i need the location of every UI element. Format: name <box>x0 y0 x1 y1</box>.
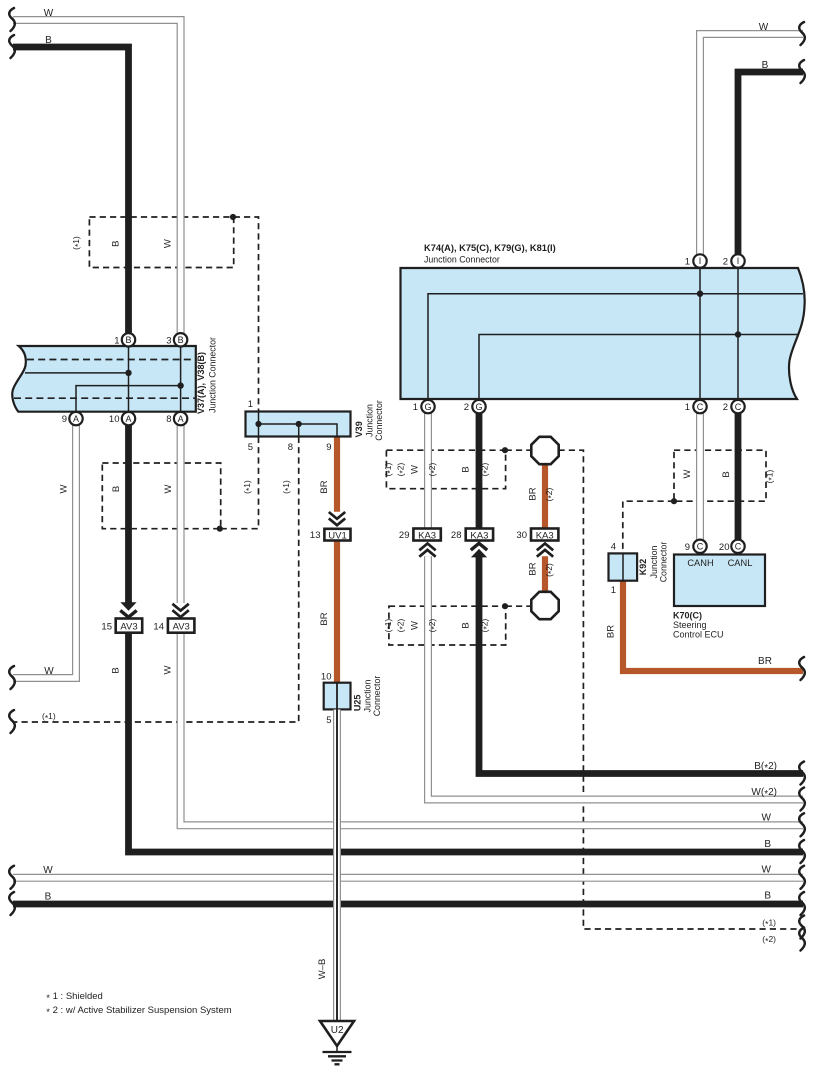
svg-text:Connector: Connector <box>374 400 384 441</box>
pin 1(I) K74 <box>693 254 706 267</box>
wire W K74 pin 1(C) to K70 pin 9 CANH <box>696 407 704 547</box>
svg-text:8: 8 <box>288 442 293 453</box>
svg-text:8: 8 <box>166 414 171 425</box>
svg-text:CANL: CANL <box>728 558 753 568</box>
pin 2(G) K74 <box>472 400 485 413</box>
svg-text:B: B <box>45 892 52 903</box>
svg-text:W: W <box>682 469 693 478</box>
svg-text:W(*2): W(*2) <box>751 787 777 800</box>
shield box (*1)(*2) around W/B wires above bottom turns <box>389 606 506 645</box>
shield box (*1)(*2) around W/B wires below K74 <box>386 450 505 489</box>
shield box (*1) around CANH/CANL wires <box>674 450 766 501</box>
break squiggle right B top <box>799 60 805 83</box>
svg-text:1: 1 <box>248 399 253 410</box>
svg-text:Junction: Junction <box>649 546 659 579</box>
node shield drain junction left-middle box <box>217 526 223 532</box>
chevrons 29 KA3 <box>419 544 435 557</box>
svg-text:30: 30 <box>516 530 527 541</box>
svg-text:Connector: Connector <box>372 676 382 717</box>
svg-text:W: W <box>759 22 769 33</box>
junction connector K74 K75 K79 K81 body <box>401 268 805 399</box>
svg-text:AV3: AV3 <box>173 621 190 632</box>
wire shield drain octagon 1 to right edge (*1)(*2) <box>559 450 804 929</box>
svg-text:BR: BR <box>528 487 539 500</box>
internal joint V37 pin1-pin10 <box>25 346 181 412</box>
svg-text:Steering: Steering <box>673 620 707 630</box>
pin 10(A) V37 <box>122 412 135 425</box>
pin 1(B) V37 <box>122 333 135 346</box>
svg-text:Junction: Junction <box>364 404 374 437</box>
svg-text:C: C <box>697 402 704 412</box>
wire BR K92 pin 1 to right edge <box>623 581 803 671</box>
svg-text:C: C <box>697 542 704 552</box>
svg-text:BR: BR <box>319 612 330 625</box>
pin 1(C) K74 <box>693 400 706 413</box>
wire BR V39 pin 9 to 13 UV1 to U25 pin 10 <box>334 437 340 685</box>
svg-text:Connector: Connector <box>658 542 668 583</box>
break squiggle left (*1) dash <box>9 710 15 733</box>
connector 13 UV1 box <box>324 529 350 541</box>
svg-text:BR: BR <box>319 480 330 493</box>
LAYER: connector boxes <box>12 268 804 1020</box>
break squiggle right W mid <box>799 813 805 836</box>
wire B V37 pin 10 to 15 AV3 and bottom B row <box>129 419 804 852</box>
internal joint K74 <box>428 268 803 399</box>
svg-text:B: B <box>178 335 184 345</box>
break squiggle right B bottom <box>799 892 805 915</box>
svg-text:* 2 : w/ Active Stabilizer Sus: * 2 : w/ Active Stabilizer Suspension Sy… <box>46 1005 231 1018</box>
ground earth hatch <box>336 1046 338 1051</box>
svg-text:B: B <box>461 466 472 472</box>
junction connector V37(A) V38(B) body <box>12 346 196 412</box>
svg-text:B: B <box>461 622 472 628</box>
break squiggle left W middle <box>9 666 15 689</box>
svg-text:C: C <box>735 542 742 552</box>
shield octagon 1 <box>531 437 558 464</box>
svg-text:9: 9 <box>326 442 331 453</box>
wire W V37 pin 8 to 14 AV3 and bottom W row <box>181 419 803 826</box>
svg-text:13: 13 <box>310 530 321 541</box>
break squiggle left W bottom <box>9 866 15 889</box>
svg-text:2: 2 <box>723 257 728 268</box>
wire W-B U25 pin 5 to ground U2 <box>333 710 341 1021</box>
break squiggle right W(*2) <box>799 788 805 811</box>
wire B top-left to V37 pin 1 <box>13 47 129 340</box>
svg-text:V37(A), V38(B): V37(A), V38(B) <box>196 352 206 414</box>
pin 2(I) K74 <box>731 254 744 267</box>
pin 3(B) V37 <box>174 333 187 346</box>
internal joint K92 divider <box>622 553 624 580</box>
connector 30 KA3 box <box>531 529 558 541</box>
wire B top-right to K74 pin 2(I) <box>738 72 803 261</box>
svg-text:10: 10 <box>109 414 120 425</box>
pin 9(A) V37 <box>69 412 82 425</box>
svg-text:B: B <box>764 839 771 850</box>
svg-text:CANH: CANH <box>687 558 713 568</box>
svg-text:1: 1 <box>685 402 690 413</box>
svg-text:B: B <box>111 486 122 492</box>
svg-text:B: B <box>125 335 131 345</box>
svg-text:W: W <box>762 813 772 824</box>
svg-text:B: B <box>764 891 771 902</box>
chevrons 14 AV3 <box>172 604 188 617</box>
svg-text:I: I <box>737 256 740 266</box>
svg-text:UV1: UV1 <box>328 530 346 541</box>
svg-text:28: 28 <box>451 530 462 541</box>
svg-text:G: G <box>475 402 482 412</box>
svg-text:1: 1 <box>413 402 418 413</box>
svg-text:5: 5 <box>248 442 253 453</box>
break squiggle right W bottom <box>799 866 805 889</box>
connector 29 KA3 box <box>413 529 440 541</box>
break squiggle left W top <box>9 8 15 31</box>
svg-text:2: 2 <box>723 402 728 413</box>
node shield drain junction upper-right box <box>502 447 508 453</box>
svg-text:1: 1 <box>611 585 616 596</box>
break squiggle right (*1) dash <box>799 916 805 939</box>
wire W top-right to K74 pin 1(I) <box>700 34 803 261</box>
LAYER: horizontal and vertical wires <box>13 20 803 904</box>
svg-text:U25: U25 <box>352 695 362 712</box>
svg-text:A: A <box>178 414 184 424</box>
svg-text:KA3: KA3 <box>536 530 554 541</box>
svg-text:K74(A), K75(C), K79(G), K81(I): K74(A), K75(C), K79(G), K81(I) <box>424 243 556 253</box>
svg-text:2: 2 <box>464 402 469 413</box>
pin 8(A) V37 <box>174 412 187 425</box>
wire W top-left to V37 pin 3 <box>13 20 181 340</box>
junction connector V39 body <box>246 412 351 437</box>
connector 15 AV3 box <box>116 619 143 633</box>
svg-text:B: B <box>45 35 52 46</box>
internal joint V39 <box>259 412 338 437</box>
svg-text:BR: BR <box>606 625 617 638</box>
svg-text:4: 4 <box>611 542 616 553</box>
break squiggle right (*2) dash <box>799 928 805 951</box>
svg-text:B(*2): B(*2) <box>754 761 777 774</box>
svg-text:W: W <box>59 484 70 493</box>
wire W full-width bottom row <box>13 874 803 882</box>
chevrons 13 UV1 <box>329 512 345 525</box>
wire shield drain to V39 pin 1 <box>234 217 259 412</box>
break squiggle right BR <box>799 657 805 680</box>
node shield drain junction top-left box <box>230 214 236 220</box>
svg-text:W: W <box>163 484 174 493</box>
svg-text:20: 20 <box>719 542 730 553</box>
shield box (*1) left-middle around B/W wires <box>102 463 220 529</box>
junction connector U25 body <box>324 683 351 710</box>
wire shield drain to octagon 2 <box>506 605 532 607</box>
break squiggle right B(*2) <box>799 762 805 785</box>
ground U2 triangle <box>320 1021 354 1046</box>
junction connector K92 body <box>609 553 638 580</box>
svg-text:3: 3 <box>166 335 171 346</box>
break squiggle left B bottom <box>9 892 15 915</box>
svg-text:14: 14 <box>153 621 164 632</box>
chevrons 28 KA3 <box>471 549 487 558</box>
svg-text:V39: V39 <box>354 421 364 437</box>
svg-text:AV3: AV3 <box>120 621 137 632</box>
pin 1(G) K74 <box>421 400 434 413</box>
node shield drain junction CAN box <box>671 498 677 504</box>
svg-text:K70(C): K70(C) <box>673 611 702 621</box>
break squiggle right W top <box>799 22 805 45</box>
connector 14 AV3 box <box>168 619 195 633</box>
svg-text:5: 5 <box>326 715 331 726</box>
svg-text:KA3: KA3 <box>418 530 436 541</box>
wire shield drain to octagon 1 <box>506 449 532 451</box>
svg-text:W: W <box>163 239 174 248</box>
svg-text:G: G <box>424 402 431 412</box>
svg-text:B: B <box>762 60 769 71</box>
svg-text:KA3: KA3 <box>470 530 488 541</box>
svg-text:BR: BR <box>758 656 772 667</box>
svg-text:W: W <box>163 665 174 674</box>
svg-text:B: B <box>111 667 122 673</box>
svg-text:29: 29 <box>399 530 410 541</box>
node V39 internal junctions <box>255 421 261 427</box>
svg-text:Control ECU: Control ECU <box>673 630 724 640</box>
svg-text:* 1 : Shielded: * 1 : Shielded <box>46 991 103 1004</box>
svg-text:W: W <box>43 865 53 876</box>
svg-text:10: 10 <box>321 671 332 682</box>
wire BR octagon 1 to 30 KA3 to octagon 2 <box>542 464 548 593</box>
bus bar dashed lines inside V37 <box>14 360 196 399</box>
svg-text:B: B <box>721 471 732 477</box>
svg-text:W: W <box>44 8 54 19</box>
svg-text:W: W <box>410 465 421 474</box>
svg-text:15: 15 <box>101 621 112 632</box>
connector 28 KA3 box <box>466 529 493 541</box>
wire shield drain V39 pin 5 to left-middle box <box>221 437 259 529</box>
svg-text:C: C <box>735 402 742 412</box>
wire B full-width bottom row <box>13 901 803 908</box>
svg-text:W: W <box>762 865 772 876</box>
svg-text:1: 1 <box>685 257 690 268</box>
node K74 internal junctions <box>697 291 703 297</box>
break squiggle right B mid <box>799 840 805 863</box>
node shield drain junction lower-right box <box>502 603 508 609</box>
svg-text:B: B <box>111 241 122 247</box>
steering control ECU K70(C) body <box>674 555 765 607</box>
shield box (*1) top-left around B/W wires <box>89 217 233 268</box>
node V37 internal junctions <box>125 370 131 376</box>
chevrons 15 AV3 <box>120 602 136 611</box>
break squiggle left B top <box>9 35 15 58</box>
wire shield drain V39 pin 8 to left edge (*1) <box>13 437 299 722</box>
shield octagon 2 <box>531 592 558 619</box>
svg-text:W: W <box>410 621 421 630</box>
svg-text:Junction Connector: Junction Connector <box>424 255 500 265</box>
wire W K74 pin 1(G) to 29 KA3 and W(*2) row <box>428 407 803 800</box>
svg-text:Junction Connector: Junction Connector <box>207 337 217 413</box>
svg-text:BR: BR <box>528 562 539 575</box>
chevrons 30 KA3 <box>537 544 553 557</box>
pin 2(C) K74 <box>731 400 744 413</box>
wire shield drain to K92 pin 4 <box>623 501 674 553</box>
wire B K74 pin 2(G) to 28 KA3 and B(*2) row <box>479 407 803 774</box>
internal joint U25 divider <box>336 683 338 710</box>
svg-text:9: 9 <box>62 414 67 425</box>
svg-text:A: A <box>73 414 79 424</box>
svg-text:K92: K92 <box>638 559 648 576</box>
svg-text:W–B: W–B <box>317 959 328 980</box>
pin 20(C) K70 <box>731 540 744 553</box>
svg-text:A: A <box>125 414 131 424</box>
svg-text:U2: U2 <box>331 1025 344 1036</box>
svg-text:I: I <box>699 256 702 266</box>
wire W V37 pin 9 to left edge <box>13 419 76 678</box>
svg-text:9: 9 <box>685 542 690 553</box>
svg-text:W: W <box>44 666 54 677</box>
svg-text:1: 1 <box>114 335 119 346</box>
LAYER: dashed shield lines <box>13 214 803 929</box>
svg-text:Junction: Junction <box>362 680 372 713</box>
pin 9(C) K70 <box>693 540 706 553</box>
wire B K74 pin 2(C) to K70 pin 20 CANL <box>735 407 742 547</box>
